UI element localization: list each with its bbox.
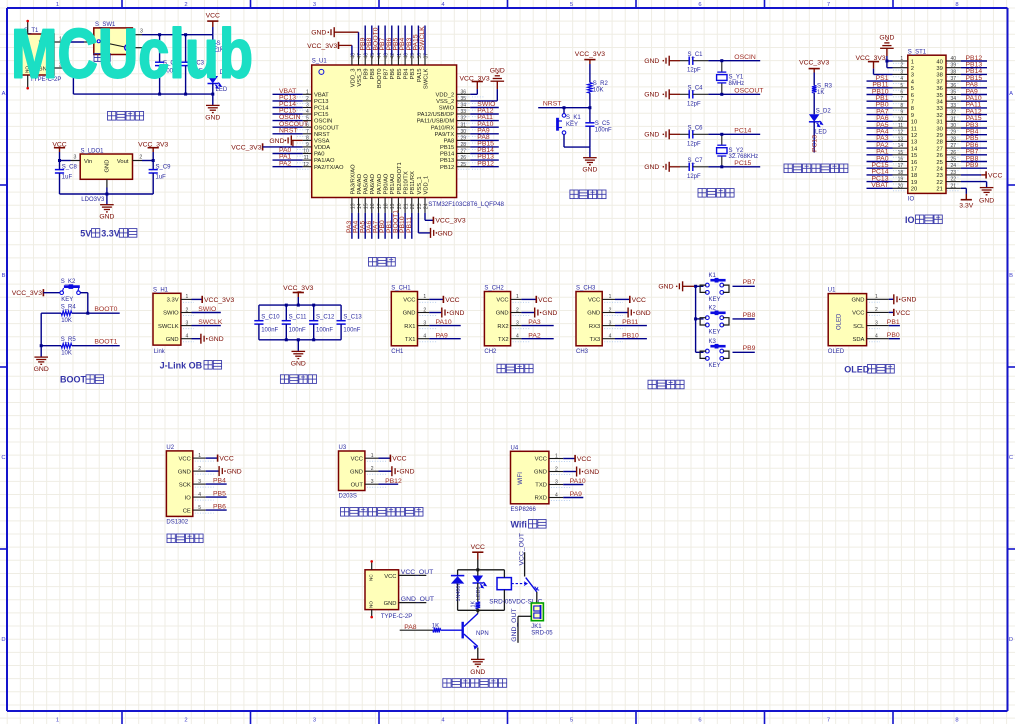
svg-text:7: 7: [827, 718, 830, 724]
svg-text:IO: IO: [905, 215, 915, 225]
svg-text:19: 19: [898, 177, 904, 183]
svg-text:12: 12: [303, 162, 309, 168]
svg-text:LED5: LED5: [476, 587, 482, 601]
svg-text:S_C9: S_C9: [156, 164, 172, 170]
svg-text:PA2: PA2: [279, 160, 292, 167]
svg-text:PC14: PC14: [314, 106, 329, 112]
crystal S_Y1 8MHz: [721, 61, 723, 72]
svg-text:PB5: PB5: [397, 69, 403, 80]
svg-text:GND: GND: [636, 310, 651, 317]
ground reset: [589, 147, 591, 158]
capacitor S_C5: [589, 108, 591, 123]
svg-text:13: 13: [350, 203, 356, 209]
svg-text:15: 15: [898, 150, 904, 156]
oled pin2 VCC: [889, 311, 894, 313]
SW1 bottom pin: [127, 55, 129, 66]
svg-text:SWCLK: SWCLK: [198, 319, 223, 326]
svg-text:7: 7: [827, 2, 830, 8]
svg-text:VDD_2: VDD_2: [436, 92, 455, 98]
svg-text:PA3: PA3: [528, 319, 541, 326]
svg-text:MCUclub: MCUclub: [11, 15, 253, 93]
svg-text:A: A: [2, 91, 6, 97]
svg-text:VCC: VCC: [988, 172, 1002, 179]
svg-text:C: C: [1, 455, 5, 461]
svg-text:38: 38: [936, 73, 942, 79]
svg-text:28: 28: [951, 136, 957, 142]
svg-text:PB0/AO: PB0/AO: [384, 173, 390, 194]
svg-text:VCC: VCC: [577, 456, 591, 463]
svg-text:BOOT0: BOOT0: [377, 69, 383, 89]
ldo bottom rail: [60, 193, 154, 195]
svg-text:PB0: PB0: [887, 332, 900, 339]
svg-text:S_C13: S_C13: [343, 315, 362, 321]
svg-text:6: 6: [698, 718, 701, 724]
svg-text:PB14: PB14: [440, 152, 455, 158]
svg-text:S_C6: S_C6: [688, 126, 704, 132]
svg-text:39: 39: [936, 66, 942, 72]
relay connector JK1: [536, 592, 538, 603]
svg-text:VCC: VCC: [588, 298, 600, 304]
diode 1N4007: [457, 570, 459, 576]
svg-text:32.768KHz: 32.768KHz: [729, 154, 759, 160]
svg-text:GND: GND: [644, 58, 659, 65]
wire vin: [59, 160, 71, 162]
svg-text:S_C7: S_C7: [688, 158, 704, 164]
ground transistor: [471, 658, 485, 660]
svg-text:PA10: PA10: [570, 478, 586, 485]
svg-text:4: 4: [186, 334, 189, 340]
title 复位电路: [570, 190, 578, 199]
svg-text:35: 35: [461, 96, 467, 102]
svg-text:NRST: NRST: [543, 100, 562, 107]
svg-text:31: 31: [936, 120, 942, 126]
svg-text:5: 5: [198, 505, 201, 511]
svg-text:GND: GND: [166, 337, 179, 343]
svg-text:4: 4: [306, 109, 309, 115]
T1 bottom stub: [27, 75, 29, 88]
svg-text:8: 8: [306, 136, 309, 142]
svg-text:VCC: VCC: [392, 456, 406, 463]
svg-text:100nF: 100nF: [595, 127, 612, 133]
svg-text:PB8: PB8: [743, 312, 756, 319]
svg-text:1: 1: [911, 59, 914, 65]
svg-text:SCL: SCL: [853, 324, 865, 330]
svg-text:2: 2: [139, 155, 142, 161]
svg-text:S_Y2: S_Y2: [729, 148, 744, 154]
svg-text:GND: GND: [582, 167, 597, 174]
boot left trunk: [40, 313, 42, 357]
svg-text:14: 14: [357, 203, 363, 209]
svg-text:JK1: JK1: [531, 624, 542, 630]
switch label 开关: [94, 54, 102, 62]
svg-text:VCC_3V3: VCC_3V3: [575, 51, 605, 58]
relay coil: [497, 578, 511, 590]
svg-text:10K: 10K: [61, 318, 72, 324]
svg-text:18: 18: [911, 173, 917, 179]
svg-text:8: 8: [955, 718, 958, 724]
svg-text:OSCOUT: OSCOUT: [314, 125, 339, 131]
svg-text:BOOT: BOOT: [60, 375, 87, 385]
svg-text:SWIO: SWIO: [163, 311, 179, 317]
button K1: [696, 285, 704, 287]
svg-text:20: 20: [397, 203, 403, 209]
svg-text:SWCLK: SWCLK: [423, 68, 429, 89]
junctions crystal: [720, 59, 723, 62]
svg-text:D: D: [1, 637, 5, 643]
svg-text:39: 39: [951, 63, 957, 69]
svg-text:S_ST1: S_ST1: [908, 49, 927, 55]
svg-text:3: 3: [313, 2, 316, 8]
svg-text:3: 3: [609, 320, 612, 326]
svg-text:K1: K1: [709, 273, 717, 279]
svg-text:PB1/AO: PB1/AO: [390, 173, 396, 194]
svg-text:PC14: PC14: [734, 128, 751, 135]
keys trunk: [695, 286, 697, 352]
mcu top pin stubs: [351, 56, 353, 66]
svg-text:100nF: 100nF: [343, 328, 360, 334]
svg-text:OSCIN: OSCIN: [314, 119, 332, 125]
svg-text:U1: U1: [828, 288, 836, 294]
svg-text:PA9: PA9: [436, 332, 449, 339]
svg-text:2: 2: [555, 466, 558, 472]
svg-text:PA10: PA10: [436, 319, 452, 326]
H1 pin4 GND: [192, 338, 201, 340]
mcu top wires and net labels: [364, 26, 366, 56]
svg-text:36: 36: [461, 89, 467, 95]
mcu bottom pin stubs: [351, 198, 353, 213]
svg-text:GND: GND: [291, 360, 306, 367]
svg-text:VDD_1: VDD_1: [423, 176, 429, 195]
header pin stubs: [893, 60, 908, 62]
svg-text:TX1: TX1: [405, 337, 416, 343]
svg-text:A: A: [1009, 91, 1013, 97]
svg-text:26: 26: [951, 150, 957, 156]
svg-text:GND: GND: [901, 297, 916, 304]
svg-text:100nF: 100nF: [261, 328, 278, 334]
svg-text:1: 1: [609, 294, 612, 300]
svg-text:PA1/AO: PA1/AO: [314, 158, 335, 164]
resistor S_R4: [41, 312, 61, 314]
svg-text:34: 34: [951, 96, 957, 102]
svg-text:DS1302: DS1302: [166, 520, 188, 526]
svg-text:Vout: Vout: [117, 159, 129, 165]
svg-text:28: 28: [936, 140, 942, 146]
svg-text:NC: NC: [369, 574, 374, 581]
svg-text:10K: 10K: [593, 87, 604, 93]
svg-text:15: 15: [364, 203, 370, 209]
svg-text:VCC_3V3: VCC_3V3: [231, 144, 261, 151]
svg-text:5V: 5V: [80, 228, 91, 238]
svg-text:36: 36: [951, 83, 957, 89]
svg-text:15: 15: [911, 153, 917, 159]
svg-text:RX2: RX2: [497, 324, 508, 330]
svg-text:IO: IO: [185, 495, 192, 501]
title 晶振电路: [698, 189, 706, 198]
junctions ldo: [58, 159, 61, 162]
svg-text:GND: GND: [470, 669, 485, 676]
svg-text:10: 10: [898, 116, 904, 122]
svg-text:GND: GND: [350, 469, 363, 475]
svg-text:B: B: [2, 273, 6, 279]
svg-text:1: 1: [371, 453, 374, 459]
H1 pin1 VCC_3V3: [192, 298, 203, 300]
svg-text:S_CH1: S_CH1: [391, 286, 411, 292]
wire K2 to BOOT0: [80, 292, 88, 294]
svg-text:PB7: PB7: [743, 279, 756, 286]
svg-text:S_H1: S_H1: [153, 287, 169, 293]
svg-text:VCC: VCC: [351, 456, 363, 462]
svg-text:100nF: 100nF: [289, 328, 306, 334]
svg-text:OLED: OLED: [837, 313, 843, 330]
svg-text:22: 22: [951, 177, 957, 183]
svg-text:VCC: VCC: [403, 298, 415, 304]
svg-text:GND: GND: [644, 92, 659, 99]
svg-text:38: 38: [951, 69, 957, 75]
svg-text:3: 3: [186, 320, 189, 326]
svg-text:GND_OUT: GND_OUT: [511, 608, 518, 641]
svg-text:8: 8: [900, 103, 903, 109]
title 滤波电路: [280, 375, 288, 384]
svg-text:VCC_3V3: VCC_3V3: [435, 218, 465, 225]
svg-text:TX3: TX3: [590, 337, 601, 343]
svg-text:ESP8266: ESP8266: [511, 507, 537, 513]
oled pin4 PB0: [889, 338, 900, 340]
svg-text:GND: GND: [99, 213, 114, 220]
header S_ST1 body: [908, 55, 946, 193]
svg-text:CE: CE: [183, 508, 191, 514]
svg-text:27: 27: [951, 143, 957, 149]
svg-text:6: 6: [698, 2, 701, 8]
svg-text:8: 8: [911, 106, 914, 112]
svg-text:GND: GND: [644, 132, 659, 139]
svg-text:S_C1: S_C1: [688, 52, 704, 58]
net label GND_OUT: [399, 602, 427, 604]
svg-text:4: 4: [516, 334, 519, 340]
svg-text:CH3: CH3: [576, 349, 589, 355]
svg-text:BOOT1: BOOT1: [94, 339, 117, 346]
svg-text:VBAT: VBAT: [871, 182, 888, 189]
power 3.3V header pin21: [961, 187, 966, 189]
svg-text:PA2/TX/AO: PA2/TX/AO: [314, 165, 344, 171]
svg-text:PB1: PB1: [887, 319, 900, 326]
svg-text:37: 37: [951, 76, 957, 82]
svg-text:PA0: PA0: [314, 152, 325, 158]
svg-text:TX2: TX2: [498, 337, 509, 343]
ground power circuit: [212, 94, 214, 105]
svg-text:16: 16: [911, 160, 917, 166]
svg-text:PA8: PA8: [444, 139, 455, 145]
svg-text:30: 30: [936, 126, 942, 132]
svg-text:20: 20: [911, 187, 917, 193]
svg-text:3: 3: [371, 479, 374, 485]
svg-text:22: 22: [410, 203, 416, 209]
svg-text:2: 2: [184, 718, 187, 724]
svg-text:1: 1: [186, 294, 189, 300]
mcu right wires and net labels: [470, 107, 499, 109]
svg-text:RXD: RXD: [535, 496, 547, 502]
junctions filter: [285, 304, 288, 307]
svg-text:RX1: RX1: [404, 324, 415, 330]
svg-text:3.3V: 3.3V: [167, 298, 179, 304]
svg-text:PB6: PB6: [213, 504, 226, 511]
H1 pin2 SWIO: [192, 312, 221, 314]
SW1 unconnected right pin: [132, 47, 144, 49]
svg-text:C: C: [1009, 455, 1013, 461]
svg-text:8MHz: 8MHz: [729, 81, 745, 87]
svg-text:2: 2: [609, 307, 612, 313]
svg-text:U4: U4: [511, 445, 519, 451]
regulator S_LDO1: [80, 154, 132, 179]
svg-text:12pF: 12pF: [687, 141, 701, 147]
svg-text:PC15: PC15: [314, 112, 329, 118]
net label VCC_OUT: [399, 574, 427, 576]
power gnd rail: [73, 93, 212, 95]
svg-text:PB10: PB10: [622, 332, 639, 339]
svg-text:32: 32: [936, 113, 942, 119]
svg-text:1K: 1K: [817, 90, 824, 96]
svg-text:17: 17: [911, 167, 917, 173]
svg-text:GND: GND: [979, 197, 994, 204]
svg-text:S_R3: S_R3: [817, 84, 833, 90]
header left wires and net labels: [867, 80, 893, 82]
svg-text:S_K1: S_K1: [566, 115, 581, 121]
svg-text:SWCLK: SWCLK: [419, 26, 426, 51]
svg-text:KEY: KEY: [709, 297, 721, 303]
svg-text:PB12: PB12: [440, 165, 454, 171]
svg-text:PB6: PB6: [390, 69, 396, 80]
wire runled: [813, 122, 815, 153]
svg-text:1: 1: [423, 294, 426, 300]
svg-text:5: 5: [911, 86, 914, 92]
sheet border frame: [7, 7, 1008, 9]
svg-text:23: 23: [951, 170, 957, 176]
svg-text:11: 11: [304, 155, 309, 161]
svg-text:19: 19: [390, 203, 396, 209]
title 主芯片: [369, 258, 377, 267]
svg-text:21: 21: [951, 183, 957, 189]
svg-text:21: 21: [936, 187, 942, 193]
title 人体热释电感应模块: [341, 508, 349, 517]
svg-text:GND: GND: [644, 164, 659, 171]
oled U1 body: [828, 294, 866, 346]
svg-text:BOOT0: BOOT0: [94, 306, 117, 313]
svg-text:VCC: VCC: [535, 457, 547, 463]
svg-text:S_C12: S_C12: [316, 315, 335, 321]
svg-text:8: 8: [955, 2, 958, 8]
svg-text:5: 5: [900, 83, 903, 89]
svg-text:PC13: PC13: [812, 135, 819, 152]
svg-text:5: 5: [570, 2, 573, 8]
svg-text:13: 13: [911, 140, 917, 146]
svg-text:VDD_3: VDD_3: [350, 69, 356, 88]
svg-text:33: 33: [461, 109, 467, 115]
wire vout: [133, 160, 143, 162]
svg-text:GND: GND: [438, 230, 453, 237]
svg-text:S_LDO1: S_LDO1: [81, 148, 105, 154]
svg-text:GND: GND: [542, 310, 557, 317]
svg-text:31: 31: [951, 116, 957, 122]
svg-text:PA6/AO: PA6/AO: [370, 173, 376, 194]
button S_K2: [60, 291, 64, 295]
crystal S_Y2 32.768KHz: [721, 134, 723, 145]
svg-text:KEY: KEY: [709, 329, 721, 335]
svg-text:1uF: 1uF: [62, 175, 73, 181]
svg-text:25: 25: [936, 160, 942, 166]
connector S_CH3: [576, 292, 602, 346]
svg-text:SWIO: SWIO: [439, 106, 455, 112]
svg-text:PA2: PA2: [528, 332, 541, 339]
svg-text:VCC: VCC: [852, 311, 864, 317]
svg-text:GND: GND: [178, 469, 191, 475]
svg-text:GND: GND: [852, 298, 865, 304]
relay bottom rail: [458, 609, 505, 611]
svg-text:GND: GND: [399, 469, 414, 476]
mcu right pin stubs: [457, 93, 471, 95]
svg-text:PA11/USB/DM: PA11/USB/DM: [417, 119, 455, 125]
svg-text:23: 23: [936, 173, 942, 179]
svg-text:16: 16: [898, 157, 904, 163]
svg-text:22: 22: [936, 180, 942, 186]
svg-text:VCC: VCC: [219, 456, 233, 463]
wire jk1 gnd_out: [518, 615, 531, 617]
svg-text:VCC_3V3: VCC_3V3: [12, 290, 42, 297]
svg-text:VSSA: VSSA: [314, 139, 330, 145]
svg-text:3: 3: [875, 320, 878, 326]
svg-text:PC13: PC13: [314, 99, 329, 105]
svg-text:1: 1: [900, 56, 903, 62]
svg-text:1: 1: [306, 89, 309, 95]
svg-text:1: 1: [875, 294, 878, 300]
title 串口电路: [497, 364, 505, 373]
svg-text:STM32F103C8T6_LQFP48: STM32F103C8T6_LQFP48: [428, 201, 504, 208]
svg-text:9: 9: [911, 113, 914, 119]
svg-text:IO: IO: [908, 197, 915, 203]
svg-text:39: 39: [410, 53, 416, 59]
svg-text:S_CH3: S_CH3: [576, 286, 596, 292]
svg-text:1: 1: [516, 294, 519, 300]
svg-text:PB4: PB4: [213, 478, 226, 485]
svg-text:1K: 1K: [471, 601, 477, 608]
svg-text:PB9: PB9: [966, 162, 979, 169]
svg-text:4: 4: [423, 334, 426, 340]
svg-text:2: 2: [900, 63, 903, 69]
svg-text:S_C8: S_C8: [62, 164, 78, 170]
svg-text:6: 6: [900, 90, 903, 96]
svg-text:SWCLK: SWCLK: [158, 324, 179, 330]
svg-text:1: 1: [198, 453, 201, 459]
svg-text:35: 35: [936, 93, 942, 99]
svg-text:100nF: 100nF: [316, 328, 333, 334]
svg-text:30: 30: [461, 129, 467, 135]
svg-text:PA4/AO: PA4/AO: [357, 173, 363, 194]
button K2: [696, 318, 704, 320]
svg-text:VDDA: VDDA: [314, 145, 330, 151]
connector TYPE-C relay: [365, 570, 399, 610]
oled pin3 PB1: [889, 325, 900, 327]
svg-text:PA7/AO: PA7/AO: [377, 173, 383, 194]
svg-text:24: 24: [936, 167, 943, 173]
ground filter: [297, 340, 299, 352]
SW1 pin3 wire to rail: [132, 34, 142, 36]
svg-text:PB15: PB15: [440, 145, 454, 151]
svg-text:PB4: PB4: [404, 68, 410, 80]
svg-text:PA5/AO: PA5/AO: [364, 173, 370, 194]
svg-text:3: 3: [313, 718, 316, 724]
svg-text:4: 4: [609, 334, 612, 340]
title 时钟模块: [167, 534, 175, 543]
mcu left wires and net labels: [273, 93, 303, 95]
resistor S_R5: [41, 345, 61, 347]
